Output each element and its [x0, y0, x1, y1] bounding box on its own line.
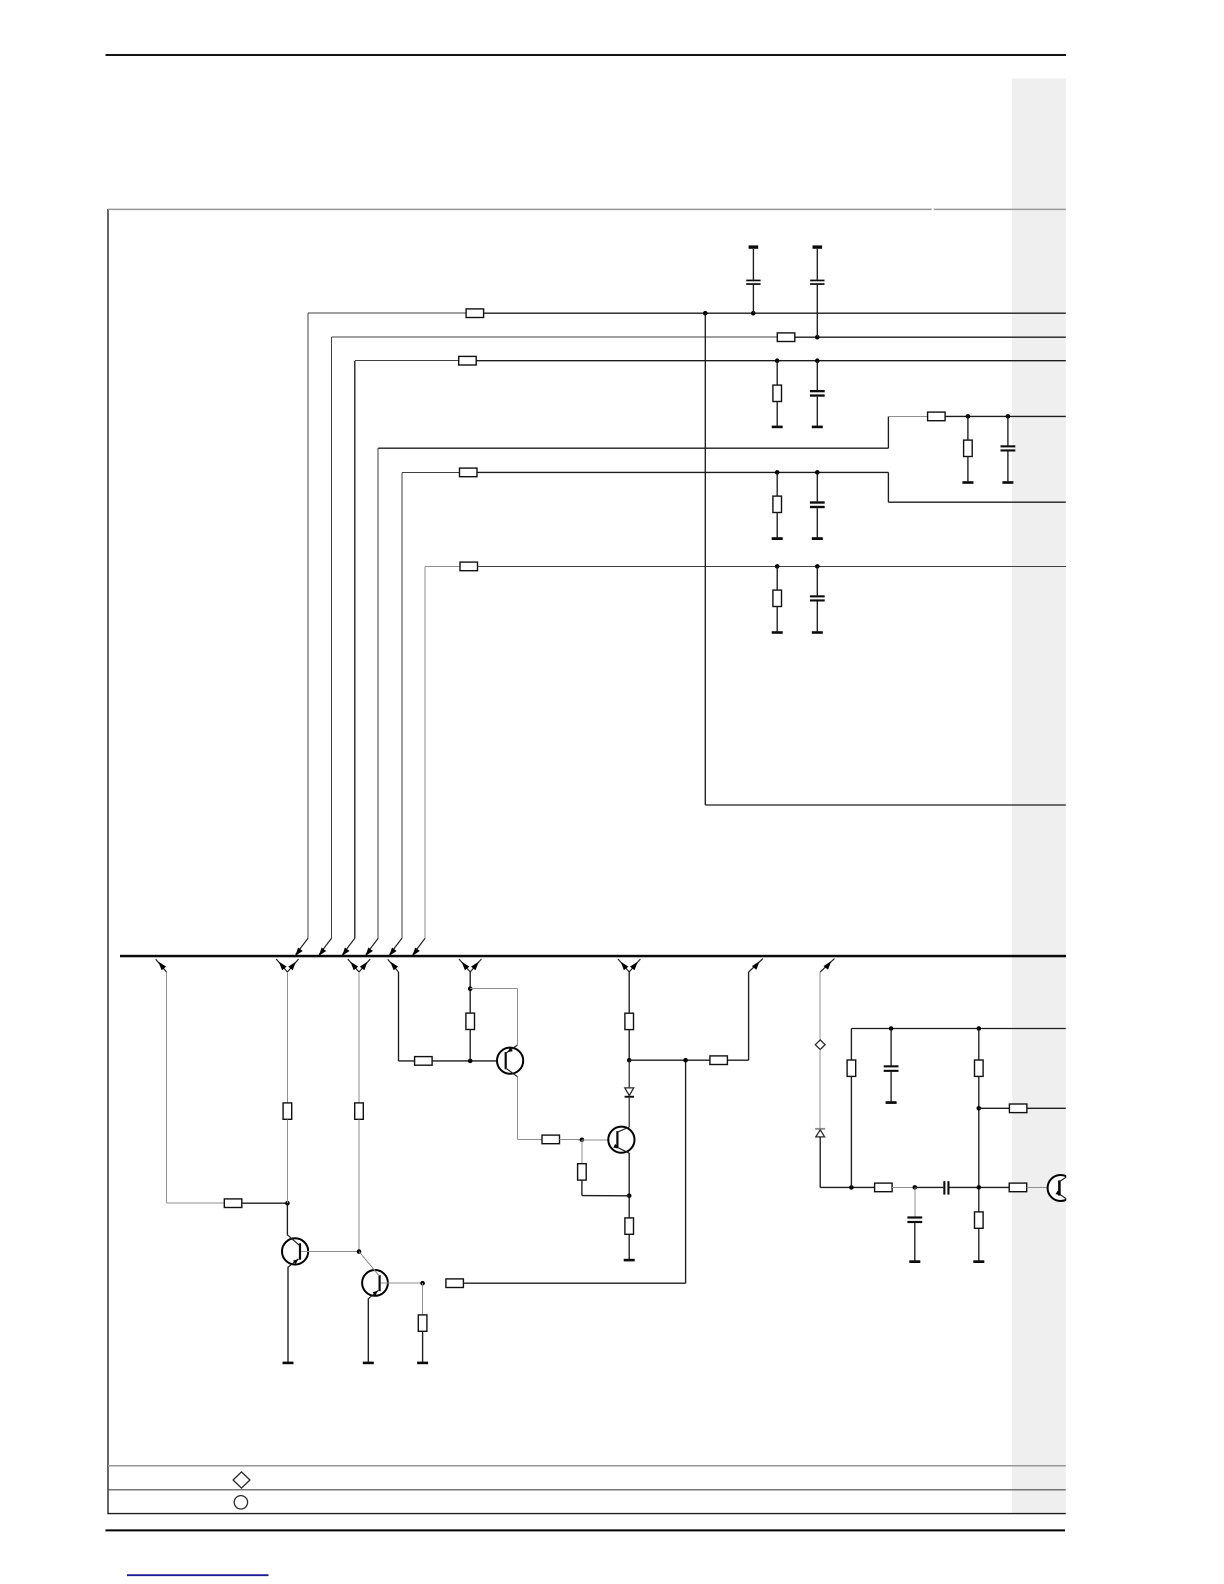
wire C3 top lead — [816, 361, 818, 391]
transistor Q3 body — [497, 1048, 523, 1074]
wire C6 bottom lead — [816, 602, 818, 632]
resistor R4 to rail — [773, 385, 782, 401]
node net-A / capacitor C1 junction — [751, 311, 756, 316]
wire tap-T6 vertical — [628, 972, 630, 1013]
node Q2 base / R13 junction — [420, 1281, 425, 1286]
wire R16 to Q3 base node — [469, 1030, 471, 1061]
wire tap-T8 vertical middle (grey) — [819, 1050, 821, 1129]
wire tap-T7 vertical — [748, 972, 750, 1060]
resistor R15 in Q3 base line — [415, 1057, 433, 1066]
transistor Q2 collector diagonal (grey) — [359, 1252, 379, 1276]
arrow drop-5 into bus — [389, 948, 396, 956]
wire R15 to Q3 base — [432, 1060, 505, 1062]
wire filter output — [945, 415, 1066, 417]
wire drop-3 bus bend — [342, 938, 354, 954]
resistor R26 — [875, 1183, 893, 1192]
schematic frame left edge — [107, 209, 109, 1514]
ground bar under Q1 emitter — [283, 1362, 294, 1365]
node feedback riser junction — [683, 1058, 688, 1063]
wire C5 top lead — [816, 472, 818, 501]
resistor R8 to rail — [773, 496, 782, 512]
wire R27 to Q5 base (grey) — [1027, 1186, 1058, 1188]
wire D2 anode to corner — [819, 1137, 821, 1188]
capacitor C7 plate 2 — [884, 1070, 899, 1072]
grey margin band — [1012, 79, 1066, 1514]
transistor Q1 collector diagonal — [287, 1235, 299, 1246]
wire C7 top lead — [890, 1029, 892, 1066]
footer separator line 1 — [108, 1489, 1066, 1491]
wire net-B horizontal left (grey) — [332, 336, 778, 338]
wire net-E horizontal left (grey) — [402, 471, 460, 473]
blue link underline — [127, 1574, 269, 1576]
resistor R10 to rail — [773, 590, 782, 606]
node lower net / R24 lower junction — [977, 1185, 982, 1190]
wire drop-6 vertical — [424, 566, 426, 938]
capacitor C4 plate 2 — [1001, 449, 1016, 451]
resistor R20 — [710, 1056, 728, 1065]
transistor Q1 base wire to right (grey) — [301, 1250, 359, 1252]
rail terminal under R10 — [772, 631, 783, 634]
wire R24 top lead — [978, 1029, 980, 1061]
resistor R12 in series — [283, 1103, 292, 1119]
capacitor C5 plate 1 — [810, 501, 825, 503]
node lower net / R23 riser junction — [849, 1185, 854, 1190]
wire D1 cathode to Q4 collector — [628, 1098, 630, 1128]
resistor R23 — [847, 1060, 856, 1076]
bus tap arrow T1 — [156, 959, 167, 972]
wire R20 to bus tap corner — [727, 1059, 748, 1061]
wire tap-T4 to R15 — [399, 1060, 415, 1062]
wire net-D horizontal — [378, 447, 888, 449]
transistor Q3 emitter diagonal (top) — [507, 1045, 518, 1053]
wire R23 lower lead — [850, 1076, 852, 1187]
wire R26 to C8 node (grey) — [892, 1186, 915, 1188]
wire riser from net-A down — [704, 313, 706, 805]
wire node to feedback riser — [629, 1059, 710, 1061]
wire C8 node to C9 — [915, 1186, 944, 1188]
resistor R1 on net-A — [466, 309, 484, 318]
wire Q3 emitter horizontal (grey) — [470, 988, 517, 990]
wire tap-T8 vertical upper (grey) — [819, 972, 821, 1040]
node Q1 base / Q2 collector junction — [357, 1249, 362, 1254]
bus tap arrows T3 (pair) — [348, 959, 359, 972]
transistor Q5 base bar — [1058, 1180, 1061, 1195]
wire drop-1 vertical — [307, 313, 309, 938]
wire R13 bottom lead — [422, 1331, 424, 1362]
capacitor C3 plate 2 — [810, 394, 825, 396]
wire tap-T2 vertical upper (grey) — [286, 972, 288, 1103]
wire Q3 collector vertical (grey) — [517, 1076, 519, 1139]
bus tap arrows T5 (pair) — [459, 959, 470, 972]
diode D2 triangle — [816, 1130, 825, 1137]
arrow drop-6 into bus — [412, 948, 419, 956]
node Q3 base / R16 junction — [468, 1059, 473, 1064]
resistor R29 in series on tap-T3 — [355, 1103, 364, 1119]
capacitor C5 plate 2 — [810, 506, 825, 508]
rail terminal under C6 — [812, 631, 823, 634]
wire tap-T1 vertical (grey) — [166, 972, 168, 1203]
transistor Q2 base wire to right (grey) — [381, 1282, 423, 1284]
rail terminal under C5 — [812, 537, 823, 540]
footer separator line 2 — [108, 1513, 1066, 1515]
wire net-F horizontal right (grey) — [478, 565, 1066, 567]
transistor Q1 emitter arrow — [293, 1259, 299, 1264]
node net-C / R4 junction — [775, 358, 780, 363]
wire net-F horizontal left (grey) — [425, 565, 460, 567]
transistor Q4 base bar — [616, 1131, 618, 1148]
transistor Q3 base bar — [505, 1052, 507, 1069]
node net-A / riser V1 junction — [703, 311, 708, 316]
wire R28 top lead — [978, 1187, 980, 1212]
wire C6 top lead — [816, 566, 818, 595]
wire Q4 emitter node to R21 — [628, 1196, 630, 1218]
wire R8 top lead — [776, 472, 778, 496]
node top rail / R24 junction — [977, 1026, 982, 1031]
wire Q1 emitter to ground — [287, 1267, 289, 1362]
wire R10 bottom lead — [776, 607, 778, 632]
node Q4 base / R18 junction — [580, 1138, 585, 1143]
wire C8 top lead (grey) — [914, 1187, 916, 1216]
wire R21 bottom lead — [628, 1234, 630, 1259]
wire drop-5 bus bend — [390, 938, 402, 954]
rail terminal under R6 — [962, 481, 973, 484]
ground bar under R21 — [624, 1259, 635, 1262]
wire tap-T1 horizontal (grey) — [167, 1202, 225, 1204]
wire C7 bottom lead — [890, 1072, 892, 1102]
wire return line to right edge — [705, 804, 1066, 806]
wire net-C horizontal right — [476, 360, 1066, 362]
bus tap arrows T2 (pair) — [276, 959, 287, 972]
node top rail / C7 junction — [889, 1026, 894, 1031]
wire net-E horizontal middle — [477, 471, 888, 473]
wire Q4 emitter vertical — [628, 1153, 630, 1196]
wire D1 anode lead — [628, 1060, 630, 1088]
rail terminal under R8 — [772, 537, 783, 540]
capacitor C2 plate 1 — [810, 280, 824, 282]
wire C4 bottom lead — [1007, 452, 1009, 482]
node net-F / C6 junction — [815, 564, 820, 569]
rail terminal under C7 — [886, 1101, 897, 1104]
transistor Q3 emitter arrow — [507, 1048, 513, 1053]
wire tap-T3 vertical upper (grey) — [358, 972, 360, 1103]
wire R14 to feedback riser — [463, 1282, 685, 1284]
wire R19 to node — [628, 1030, 630, 1061]
transistor Q2 emitter diagonal — [368, 1290, 378, 1298]
wire R4 top lead — [776, 361, 778, 386]
resistor R14 in Q2 base line — [446, 1279, 464, 1288]
transistor Q5 emitter diagonal (bottom) — [1060, 1195, 1070, 1202]
bus tap arrow T8 — [820, 959, 834, 972]
resistor R24 — [975, 1060, 984, 1076]
wire net-D rise to filter — [887, 416, 889, 448]
resistor R3 on net-C — [459, 356, 477, 365]
node Q1 collector net junction — [285, 1201, 290, 1206]
wire drop-5 vertical — [401, 472, 403, 938]
resistor R19 in series — [625, 1013, 634, 1029]
schematic frame top edge left segment — [108, 208, 932, 210]
resistor R27 in Q5 base line — [1009, 1183, 1026, 1192]
node net-E / R8 junction — [775, 470, 780, 475]
node net-E / C5 junction — [815, 470, 820, 475]
wire Q2 emitter to ground — [367, 1298, 369, 1361]
transistor Q2 emitter arrow — [373, 1291, 378, 1296]
wire drop-2 bus bend — [319, 938, 331, 954]
bus tap arrow T7 — [749, 959, 763, 972]
transistor Q1 body — [282, 1238, 308, 1264]
wire R4 bottom lead — [776, 402, 778, 426]
wire R13 top lead (grey) — [422, 1283, 424, 1315]
transistor Q2 base bar — [379, 1275, 381, 1291]
wire R22 bottom lead — [581, 1180, 583, 1196]
wire C1 bottom lead — [752, 285, 754, 313]
ground bar under Q2 emitter — [363, 1362, 374, 1365]
test point diamond symbol — [815, 1040, 825, 1050]
footer circle symbol — [234, 1496, 247, 1509]
wire drop-4 bus bend — [366, 938, 378, 954]
wire drop-3 vertical — [354, 361, 356, 939]
wire net-A horizontal left (grey) — [308, 312, 466, 314]
top rule — [106, 54, 1067, 56]
wire C2 bottom lead — [816, 285, 818, 337]
arrow drop-4 into bus — [366, 948, 373, 956]
wire drop-2 vertical — [331, 337, 333, 938]
wire filter input (grey) — [888, 415, 927, 417]
transistor Q4 emitter diagonal (bottom) — [619, 1148, 630, 1153]
capacitor C8 plate 2 — [907, 1221, 922, 1223]
wire drop-4 vertical — [377, 448, 379, 938]
wire tap-T5 vertical — [469, 972, 471, 1013]
capacitor C6 plate 2 — [810, 599, 825, 601]
supply stub terminal of C1 — [749, 245, 759, 248]
resistor R9 on net-F — [460, 562, 478, 571]
wire R17 to Q4 base node (grey) — [560, 1138, 582, 1140]
wire drop-6 bus bend — [413, 938, 425, 954]
wire Q3 emitter vertical (grey) — [517, 989, 519, 1046]
capacitor C6 plate 1 — [810, 595, 825, 597]
bus tap arrows T6 (pair) — [618, 959, 629, 972]
resistor R21 top is node; body — [625, 1218, 634, 1234]
resistor R28 — [975, 1212, 984, 1228]
transistor Q2 body — [362, 1270, 388, 1296]
wire right-block top rail — [851, 1028, 1065, 1030]
wire C3 bottom lead — [816, 397, 818, 426]
arrow drop-1 into bus — [295, 948, 302, 956]
wire C4 top lead — [1007, 416, 1009, 445]
node filter / C4 junction — [1006, 414, 1011, 419]
wire C9 to R24 node — [950, 1186, 1010, 1188]
resistor R17 in Q4 base line — [542, 1135, 560, 1144]
capacitor C9 series plate 2 — [947, 1181, 949, 1194]
rail terminal under C8 — [909, 1260, 920, 1263]
capacitor C2 plate 2 — [810, 283, 824, 285]
wire R6 bottom lead — [967, 457, 969, 482]
capacitor C9 series plate 1 — [943, 1181, 945, 1194]
transistor Q5 collector diagonal (top) — [1060, 1175, 1070, 1181]
wire tap-T2 vertical lower (grey) — [286, 1119, 288, 1203]
ground bar under R13 — [417, 1362, 428, 1365]
wire R25 to right edge — [1027, 1107, 1066, 1109]
wire R8 bottom lead — [776, 513, 778, 538]
wire tap-T4 vertical — [398, 972, 400, 1061]
wire C8 bottom lead — [914, 1223, 916, 1260]
wire Q4 base (grey) — [582, 1139, 616, 1141]
schematic frame top edge right segment — [934, 208, 1066, 210]
node net-C / C3 junction — [815, 358, 820, 363]
supply stub terminal of C2 — [813, 245, 823, 248]
main supply bus — [120, 955, 1066, 958]
resistor R13 to ground — [418, 1315, 427, 1331]
transistor Q5 emitter arrow — [1056, 1191, 1062, 1196]
schematic frame bottom edge — [108, 1465, 1066, 1467]
wire R24 lower lead — [978, 1076, 980, 1187]
wire output tap to R25 — [979, 1107, 1010, 1109]
capacitor C3 plate 1 — [810, 390, 825, 392]
transistor Q1 base bar — [299, 1243, 301, 1259]
wire R6 top lead — [967, 416, 969, 440]
diode D2 cathode bar (grey) — [815, 1128, 825, 1130]
wire C1 top lead — [752, 249, 754, 280]
resistor R22 body — [578, 1164, 587, 1180]
resistor R2 on net-B — [777, 333, 795, 342]
node R24 / output tap junction — [977, 1106, 982, 1111]
rail terminal under C3 — [812, 426, 823, 429]
resistor R16 in series — [466, 1013, 475, 1029]
footer diamond symbol — [233, 1472, 250, 1488]
wire tap-T3 vertical lower (grey) — [358, 1119, 360, 1251]
rail terminal under C4 — [1002, 481, 1013, 484]
transistor Q5 body — [1048, 1175, 1074, 1201]
arrow drop-3 into bus — [342, 948, 349, 956]
transistor Q1 emitter diagonal — [288, 1259, 299, 1267]
transistor Q4 collector diagonal (top) — [619, 1127, 630, 1132]
arrow drop-2 into bus — [319, 948, 326, 956]
wire Q3 collector horizontal (grey) — [518, 1138, 542, 1140]
resistor R11 — [224, 1199, 242, 1208]
node net-F / R10 junction — [775, 564, 780, 569]
resistor R7 on net-E — [460, 468, 478, 477]
wire lower net horizontal from corner — [820, 1186, 874, 1188]
capacitor C1 plate 1 — [746, 280, 760, 282]
resistor R6 to rail — [964, 440, 973, 456]
wire net-E jog down — [887, 472, 889, 502]
node tap-T5 / Q3 emitter junction — [468, 986, 473, 991]
node R19 / diode D1 junction — [627, 1058, 632, 1063]
wire R23 riser upper — [850, 1029, 852, 1061]
wire R28 bottom lead — [978, 1228, 980, 1260]
wire R22 to Q4 emitter node — [582, 1195, 629, 1197]
diode D1 triangle — [625, 1088, 634, 1096]
bus tap arrow T4 — [388, 959, 399, 972]
resistor R22 under Q4 base node (grey lead) — [581, 1140, 583, 1164]
wire net-B horizontal right — [795, 336, 1066, 338]
capacitor C4 plate 1 — [1001, 445, 1016, 447]
node lower net / C8 junction — [913, 1185, 918, 1190]
capacitor C7 plate 1 — [884, 1065, 899, 1067]
resistor R25 output — [1009, 1104, 1027, 1113]
wire net-C horizontal left (grey) — [355, 360, 459, 362]
bottom thick rule — [106, 1529, 1066, 1531]
wire Q1 collector lead — [286, 1203, 288, 1235]
wire C2 top lead — [816, 249, 818, 280]
wire feedback riser vertical — [685, 1060, 687, 1283]
transistor Q4 body — [608, 1127, 634, 1153]
wire R10 top lead — [776, 566, 778, 590]
wire net-E horizontal right — [888, 501, 1065, 503]
node filter / R6 junction — [966, 414, 971, 419]
resistor R5 in filter — [928, 412, 946, 421]
wire drop-1 bus bend — [296, 938, 308, 954]
capacitor C1 plate 2 — [746, 283, 760, 285]
transistor Q3 collector diagonal (bottom) — [507, 1069, 518, 1077]
rail terminal under R4 — [772, 426, 783, 429]
diode D1 cathode bar — [625, 1096, 634, 1098]
node net-B / capacitor C2 junction — [815, 335, 820, 340]
wire C5 bottom lead — [816, 508, 818, 537]
node Q4 emitter / R21 junction — [627, 1194, 632, 1199]
wire R11 to Q1 collector node — [242, 1202, 288, 1204]
transistor Q4 emitter arrow — [613, 1144, 619, 1148]
wire net-A horizontal right — [484, 312, 1066, 314]
capacitor C8 plate 1 — [907, 1216, 922, 1218]
rail terminal under R28 — [973, 1260, 984, 1263]
